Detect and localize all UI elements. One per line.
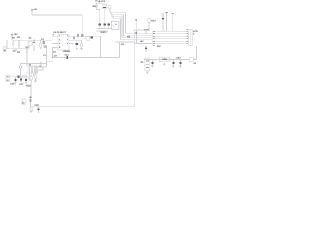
- capacitor C25 polarized: [162, 13, 164, 31]
- capacitor C8 above rail: [81, 35, 84, 36]
- wire net right to supply: [135, 43, 152, 45]
- wire T1 mid pin long down: [30, 73, 32, 76]
- LCD module body: [189, 29, 193, 45]
- wire drop x=82.2 to C cluster: [81, 15, 83, 35]
- bus wire B horizontal: [111, 13, 124, 15]
- wire U3 gnd down: [163, 62, 165, 64]
- diode D2 diamond: [19, 64, 22, 77]
- transformer T1 box: [28, 63, 42, 73]
- pin numbers column LCD: [186, 30, 188, 44]
- wire input upper rail: [12, 39, 52, 41]
- diode D3 on rail: [190, 58, 198, 65]
- wire VCC3 down: [11, 35, 13, 40]
- capacitor C20 to ground: [35, 104, 40, 112]
- power flag VCC3 left input: [11, 33, 18, 36]
- capacitor C22 to ground: [172, 60, 174, 68]
- op-amp U1 box: [58, 35, 71, 54]
- bus lines U2 to LCD: [155, 31, 186, 44]
- wire from VCC2 down: [98, 1, 100, 3]
- junction dot net: [52, 57, 53, 58]
- wire output down to bus A: [109, 9, 111, 13]
- potentiometer P1: [141, 58, 150, 74]
- wire osc gnd stub: [97, 30, 109, 32]
- regulator VR1 rail: [144, 59, 190, 61]
- capacitor C7 above rail: [77, 34, 79, 35]
- svg-text:1N: 1N: [121, 43, 124, 46]
- resistor R8 series: [22, 76, 26, 78]
- transistor Q3 block: [103, 5, 107, 9]
- wire T1 right pin b: [38, 67, 44, 70]
- svg-text:RS: RS: [127, 36, 131, 39]
- wire VCC1 vertical: [31, 10, 33, 15]
- pin numbers column U2: [153, 31, 155, 45]
- wire Q4 emitter long down: [30, 80, 32, 98]
- resistor R12 osc bias: [93, 5, 98, 8]
- trimmer box X1: [112, 21, 119, 29]
- wire oscillator ground rail: [97, 28, 112, 30]
- capacitor C18 dropper: [25, 77, 31, 88]
- jack J2 lower: [6, 75, 10, 82]
- capacitor C14 series on net: [65, 54, 70, 59]
- capacitor C16 dropper: [14, 77, 16, 84]
- bus wire D to MCU: [120, 39, 152, 41]
- wire Q1 down: [33, 46, 35, 52]
- wire U1 pin6 left: [52, 46, 58, 48]
- wire T1 right pin a: [38, 66, 47, 68]
- capacitor C23 to ground: [176, 56, 181, 67]
- wire supply vertical short: [136, 30, 138, 44]
- svg-text:+9V: +9V: [14, 33, 18, 36]
- junction dot rail: [34, 40, 35, 41]
- bus wire B to MCU: [124, 35, 153, 37]
- wire U1 out low stub: [69, 43, 74, 45]
- bus wire C horizontal: [112, 15, 122, 17]
- bus wire C to MCU: [122, 37, 152, 39]
- pin number specks U1: [59, 36, 68, 47]
- power flag VCC2 at oscillator: [95, 0, 106, 3]
- wire left bias vertical: [6, 40, 8, 49]
- ground U3: [163, 64, 166, 66]
- wire right branch down to Q3: [104, 3, 106, 5]
- svg-text:LM386: LM386: [63, 50, 71, 53]
- capacitor C10 osc: [99, 22, 101, 28]
- svg-text:7805: 7805: [162, 58, 168, 61]
- power flag bottom: [30, 96, 32, 99]
- svg-text:OSC1: OSC1: [101, 31, 108, 34]
- wire long vertical right: [134, 30, 136, 107]
- capacitor C13 to ground: [76, 40, 79, 50]
- wire U1 pin5 right rail: [69, 35, 101, 37]
- wire lower-left top rail: [21, 63, 47, 65]
- wire rail up into Q1: [28, 46, 30, 49]
- inductor L1 box: [85, 37, 90, 41]
- bus wire A horizontal: [110, 11, 126, 13]
- capacitor C11 osc: [104, 22, 106, 28]
- wire D stub: [112, 16, 114, 18]
- node dot small: [40, 62, 41, 63]
- bus wire A to MCU: [126, 33, 153, 35]
- resistor R11 to ground: [30, 108, 33, 112]
- bus wire C vertical: [121, 16, 123, 37]
- wire lower mid rail: [10, 76, 29, 78]
- inductor L2 block: [107, 6, 111, 9]
- wire C stub at left: [111, 14, 113, 16]
- wire U1 pin2 left: [52, 35, 58, 37]
- wire top rail of oscillator: [95, 2, 104, 4]
- resistor R7 to ground: [80, 40, 83, 50]
- wire long vertical mid: [100, 36, 102, 57]
- transistor Q1 block: [28, 36, 36, 45]
- svg-text:R10: R10: [26, 84, 31, 87]
- capacitor C9 below rail: [91, 35, 93, 38]
- svg-text:+9V: +9V: [33, 8, 37, 11]
- svg-text:VCC: VCC: [101, 0, 106, 3]
- wire supply up to MCU: [196, 46, 198, 60]
- wire Q3 right leg down: [104, 9, 106, 23]
- wire T1 pins down: [30, 73, 34, 77]
- svg-text:C15: C15: [10, 83, 15, 86]
- power wire T-top a: [165, 13, 167, 32]
- capacitor C24 under U2: [145, 45, 147, 51]
- capacitor C6 on out rail: [73, 36, 75, 40]
- resistor R5 on rail: [26, 49, 28, 53]
- capacitor C12 osc: [108, 22, 110, 29]
- svg-text:C23: C23: [176, 56, 181, 59]
- resistor R4 vertical: [40, 40, 42, 49]
- trimmer VR2 top right: [148, 18, 156, 22]
- svg-text:C17: C17: [19, 83, 24, 86]
- wire label row to strip: [133, 29, 143, 31]
- wire U1 pin3 drop: [51, 47, 53, 57]
- wire U1 pin4 left: [52, 43, 58, 45]
- regulator U3 box: [159, 57, 169, 62]
- bus wire B vertical: [123, 14, 125, 36]
- resistor R2: [18, 40, 20, 49]
- wire net across top: [115, 41, 135, 43]
- wire input lower rail: [6, 48, 29, 50]
- svg-text:+5V: +5V: [140, 40, 144, 43]
- wire long vertical x46.6: [46, 46, 48, 68]
- wire net up corner: [118, 42, 120, 57]
- power flag VCC1 top-left: [31, 8, 38, 11]
- resistor R1: [12, 40, 14, 49]
- bus wire D vertical: [119, 18, 121, 39]
- bus wire A vertical: [125, 12, 127, 33]
- wire Q3 base left down: [99, 10, 101, 23]
- capacitor C2 series: [41, 38, 45, 46]
- resistor R9 vertical: [34, 73, 37, 82]
- power wire T-top b: [172, 14, 174, 31]
- capacitor C15 series: [18, 75, 19, 78]
- wire mid horizontal net: [52, 56, 119, 58]
- wire VR2 down: [148, 22, 150, 30]
- svg-text:C4 C5 R6 C7: C4 C5 R6 C7: [53, 31, 67, 34]
- flag net down arrow: [135, 19, 137, 30]
- wire R5 down long: [26, 53, 28, 67]
- ground below rail: [15, 49, 17, 52]
- connector strip U2 left: [144, 28, 152, 45]
- wire R12 down jog: [97, 8, 100, 10]
- svg-text:CON1: CON1: [144, 28, 151, 31]
- wire node stub: [40, 63, 42, 66]
- jack J1 input: [3, 47, 6, 52]
- svg-text:C20: C20: [35, 104, 40, 107]
- capacitor C21 to ground: [151, 60, 153, 68]
- wire C2 to vertical: [44, 45, 47, 47]
- capacitor C17 dropper: [19, 77, 24, 87]
- connector J3 bottom: [22, 99, 26, 105]
- wire VCC1 rail to right: [32, 14, 82, 16]
- wire label stub: [145, 30, 147, 34]
- wire corner to diagonal: [47, 60, 53, 62]
- capacitor C19 on drop: [29, 97, 31, 106]
- svg-text:R14: R14: [151, 19, 156, 22]
- wire B stub at left: [110, 12, 112, 14]
- wire long bottom rail: [31, 106, 135, 108]
- bus wire D horizontal: [113, 17, 120, 19]
- wire left branch down: [96, 3, 98, 4]
- wire U1 out mid: [69, 39, 82, 41]
- transistor Q4: [28, 76, 33, 81]
